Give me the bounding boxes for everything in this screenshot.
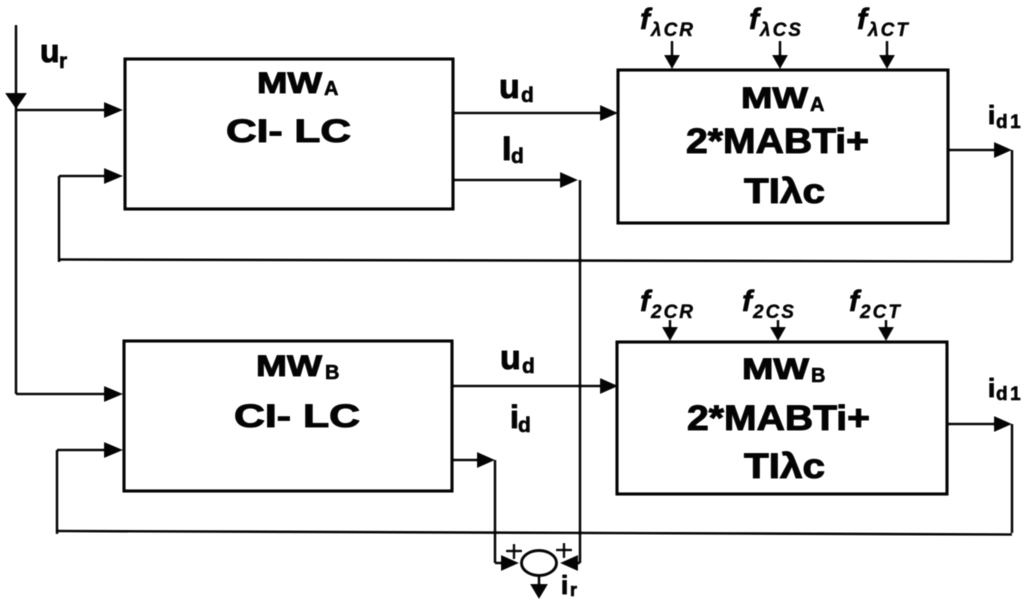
label: u_d top <box>499 68 534 107</box>
label: i_d bottom <box>510 399 531 437</box>
wire: summer output down <box>538 576 541 586</box>
wire: f_2CT input arrow line <box>885 320 888 329</box>
svg-text:MW: MW <box>256 350 323 383</box>
arrowhead: into MW_A CI-LC first input <box>104 102 123 118</box>
svg-text:MW: MW <box>742 353 810 386</box>
svg-text:2CR: 2CR <box>650 302 695 323</box>
svg-text:2CT: 2CT <box>859 302 902 323</box>
arrowhead: f_2CR down <box>662 327 678 341</box>
svg-text:i: i <box>988 100 995 130</box>
arrowhead: i_d at vertical node bottom <box>477 452 495 468</box>
svg-text:r: r <box>570 580 577 600</box>
summer circle <box>522 551 557 576</box>
label: f_2CR <box>640 285 695 323</box>
arrowhead: into MW_B CI-LC first input <box>104 386 123 402</box>
label: MW_A in block 2 <box>741 82 824 116</box>
block: MW_A CI-LC <box>125 59 453 209</box>
svg-text:CI- LC: CI- LC <box>234 398 360 434</box>
wire: f_lambda_CR input arrow line <box>671 41 674 56</box>
svg-text:d: d <box>522 355 535 378</box>
arrowhead: i_d1 top output <box>994 142 1012 158</box>
svg-text:i: i <box>561 570 568 600</box>
svg-text:d: d <box>521 84 534 107</box>
wire: feedback bottom into MW_B CI-LC second input <box>57 450 106 534</box>
wire: u_d from MW_B CI-LC to MW_B 2*MABTi+ <box>452 385 601 388</box>
wire: i_d1 output of MW_A 2*MABTi+ <box>948 150 1012 261</box>
arrowhead: into summer from right <box>560 555 578 571</box>
label: f_2CS <box>742 285 796 323</box>
svg-text:2CS: 2CS <box>752 302 796 323</box>
wire: i_d1 output of MW_B 2*MABTi+ <box>947 424 1012 533</box>
arrowhead: into MW_A CI-LC second input <box>104 168 123 184</box>
wire: u_r branch to MW_B CI-LC input <box>16 393 106 396</box>
label: f_lambda_CT <box>857 3 910 41</box>
arrowhead: f_lambda_CR down <box>664 55 680 69</box>
block: MW_B CI-LC <box>124 341 452 491</box>
label: u_d bottom <box>500 339 535 378</box>
arrowhead: u_r down on main line <box>5 93 27 109</box>
wire: f_2CR input arrow line <box>669 320 672 329</box>
svg-text:MW: MW <box>257 67 323 100</box>
label: i_r <box>561 570 577 600</box>
label: MW_A in block 1 <box>257 67 338 100</box>
svg-text:λCR: λCR <box>650 20 695 41</box>
arrowhead: f_lambda_CT down <box>879 55 895 69</box>
label: 2*MABTi+ in block 4 <box>687 399 870 438</box>
svg-text:2*MABTi+: 2*MABTi+ <box>686 122 869 161</box>
wire: u_r main vertical input line <box>15 25 18 394</box>
wire: vertical line from I_d down to summer <box>576 180 580 563</box>
arrowhead: into MW_B CI-LC second input <box>104 442 123 458</box>
arrowhead: I_d at vertical node <box>560 172 578 188</box>
label: f_lambda_CR <box>640 3 695 41</box>
wire: I_d from MW_A CI-LC to vertical node <box>453 179 561 182</box>
label: f_2CT <box>849 285 902 323</box>
wire: feedback top into MW_A CI-LC second input <box>59 176 106 262</box>
arrowhead: u_d into MW_A 2*MABTi+ <box>600 105 618 121</box>
svg-text:MW: MW <box>741 82 809 115</box>
label: f_lambda_CS <box>749 3 803 41</box>
svg-text:2*MABTi+: 2*MABTi+ <box>687 399 870 438</box>
arrowhead: into summer from left <box>501 555 519 571</box>
svg-text:A: A <box>324 78 338 100</box>
svg-text:d1: d1 <box>996 384 1023 405</box>
svg-text:B: B <box>325 362 339 384</box>
plus sign right of summer <box>556 543 572 558</box>
svg-text:λCS: λCS <box>759 20 803 41</box>
svg-text:A: A <box>810 94 824 116</box>
arrowhead: summer output down <box>530 584 548 599</box>
svg-text:u: u <box>500 339 521 377</box>
label: CI- LC in block 3 <box>234 398 360 434</box>
arrowhead: f_lambda_CS down <box>772 55 788 69</box>
label: i_d1 bottom <box>988 373 1023 405</box>
label: TIlambda-c in block 4 <box>744 447 825 486</box>
svg-text:d1: d1 <box>996 112 1023 133</box>
label: TIlambda-c in block 2 <box>744 172 825 211</box>
svg-text:λCT: λCT <box>867 20 910 41</box>
svg-text:d: d <box>518 414 531 437</box>
wire: f_2CS input arrow line <box>777 320 780 329</box>
wire: f_lambda_CS input arrow line <box>779 41 782 56</box>
arrowhead: f_2CT down <box>878 327 894 341</box>
svg-text:TIλc: TIλc <box>744 447 825 486</box>
svg-text:TIλc: TIλc <box>744 172 825 211</box>
block: MW_B 2*MABTi+ TIlambda-c <box>617 342 947 494</box>
block: MW_A 2*MABTi+ TIlambda-c <box>618 70 948 223</box>
wire: u_d from MW_A CI-LC to MW_A 2*MABTi+ <box>453 112 601 115</box>
svg-text:i: i <box>988 373 995 403</box>
svg-text:CI- LC: CI- LC <box>226 113 351 149</box>
label: I_d top <box>502 130 524 168</box>
wire: bottom feedback horizontal from i_d1 bottom <box>57 531 1012 535</box>
arrowhead: i_d1 bottom output <box>994 416 1012 432</box>
svg-text:u: u <box>40 33 60 69</box>
svg-text:B: B <box>811 365 825 387</box>
svg-text:r: r <box>59 50 67 73</box>
label: i_d1 top <box>988 100 1023 133</box>
wire: top feedback horizontal from i_d1 <box>59 260 1012 262</box>
label: u_r <box>40 33 67 73</box>
svg-text:u: u <box>499 68 520 106</box>
plus sign left of summer <box>506 544 522 559</box>
label: MW_B in block 3 <box>256 350 339 384</box>
wire: u_r branch to MW_A CI-LC input <box>16 109 106 112</box>
svg-text:d: d <box>511 145 524 168</box>
wire: f_lambda_CT input arrow line <box>886 41 889 56</box>
arrowhead: u_d into MW_B 2*MABTi+ <box>600 378 618 394</box>
label: 2*MABTi+ in block 2 <box>686 122 869 161</box>
label: CI- LC in block 1 <box>226 113 351 149</box>
arrowhead: f_2CS down <box>770 327 786 341</box>
wire: i_d from MW_B CI-LC to summer <box>452 460 502 563</box>
label: MW_B in block 4 <box>742 353 825 387</box>
